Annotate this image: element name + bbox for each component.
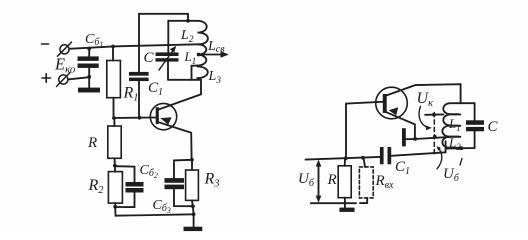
node junction top of Cб1 — [87, 47, 91, 51]
svg-text:R3: R3 — [204, 171, 220, 190]
wire supply rail — [69, 44, 197, 49]
wire base line — [114, 117, 157, 120]
wire plus lead — [68, 77, 89, 79]
label Uб' prime — [460, 159, 462, 166]
node junction R/R2/Cб2 — [113, 164, 117, 168]
node junction dashed/Uк line — [432, 113, 436, 117]
wire Uк tap line — [425, 113, 443, 115]
arrow Uб' (curved) — [437, 146, 442, 169]
svg-text:Uб: Uб — [298, 171, 315, 189]
svg-text:Uб: Uб — [443, 166, 460, 184]
resistor R2 — [108, 166, 122, 207]
wire tank top line — [461, 102, 475, 104]
capacitor C1 — [129, 72, 149, 118]
ground (main, left circuit) — [184, 214, 203, 231]
inductor L2 — [198, 21, 208, 45]
ground (rotated, emitter) — [402, 128, 415, 146]
svg-text:Cб1: Cб1 — [85, 32, 103, 49]
wire outer loop top — [139, 14, 188, 72]
svg-text:Lсв: Lсв — [207, 39, 225, 55]
arrow Uк (curved) — [419, 107, 432, 131]
capacitor Cб2 — [115, 166, 144, 207]
inductor L1 — [198, 44, 207, 65]
capacitor Cб1 — [78, 49, 99, 77]
transistor Q2 emitter (PNP arrow) — [386, 107, 415, 139]
node junction coil bottom — [460, 146, 464, 150]
arrow of variable capacitor C — [159, 46, 176, 70]
plus sign — [42, 74, 51, 83]
wire dashed divider — [433, 113, 435, 155]
arrow Uб (double headed) — [316, 160, 322, 203]
transistor Q1 circle — [150, 103, 176, 129]
node junction R top — [344, 157, 348, 161]
svg-text:Cб2: Cб2 — [140, 163, 158, 180]
wire tank bottom line — [168, 79, 201, 81]
resistor Rвх (dashed) — [359, 158, 373, 203]
wire inner top line — [168, 20, 197, 22]
transistor Q1 collector — [158, 80, 201, 110]
capacitor C1 right — [380, 147, 446, 164]
wire tap to coil (L1'/L2' junction) — [415, 137, 450, 139]
wire bottom rail right — [311, 202, 356, 204]
resistor R — [108, 118, 121, 166]
terminal top (circle with slash) — [58, 42, 72, 56]
svg-text:L3: L3 — [208, 69, 222, 86]
wire base line right — [346, 102, 383, 159]
svg-text:R2: R2 — [88, 177, 105, 196]
node junction dashed line/tap — [433, 135, 437, 139]
node junction at inner top line — [186, 19, 190, 23]
wire emitter down — [190, 133, 192, 160]
ground (below Cб1) — [78, 77, 100, 93]
svg-text:L2: L2 — [180, 28, 194, 45]
svg-text:L1: L1 — [184, 49, 197, 66]
node junction R1 top — [111, 45, 115, 49]
capacitor Cб3 — [165, 160, 193, 206]
minus sign — [42, 43, 49, 45]
svg-text:R: R — [327, 172, 337, 188]
svg-text:Eко: Eко — [54, 55, 76, 76]
wire tank bottom line — [446, 147, 475, 150]
svg-text:Rвх: Rвх — [375, 173, 395, 191]
node junction Rвх top — [361, 156, 365, 160]
resistor R1 — [107, 47, 121, 119]
svg-text:C: C — [144, 50, 155, 66]
node junction plus/Cб1 — [87, 75, 91, 79]
node junction emitter/R3/Cб3 — [190, 158, 194, 162]
transistor Q2 circle — [376, 87, 408, 119]
node junction emitter ground line — [413, 137, 417, 141]
capacitor C (variable) — [156, 21, 179, 80]
node junction Lсв takeoff — [197, 53, 201, 57]
svg-text:Cб3: Cб3 — [153, 198, 171, 215]
inductor L3 — [198, 67, 208, 80]
transistor Q2 collector — [386, 84, 461, 103]
resistor R right — [338, 158, 351, 207]
resistor R3 — [186, 160, 199, 206]
node junction C1 rail on base line — [138, 116, 142, 120]
svg-text:C1: C1 — [148, 80, 163, 98]
wire tap L1/L3 — [192, 66, 198, 80]
svg-text:C: C — [488, 119, 499, 135]
node junction bus/ground — [192, 212, 196, 216]
inductor L2' — [442, 137, 460, 148]
wire input rail / C1 line — [306, 157, 380, 160]
ground (below R right) — [339, 208, 354, 212]
svg-text:R: R — [87, 135, 97, 151]
svg-text:Uк: Uк — [417, 90, 434, 109]
wire R3 to bus — [192, 206, 195, 214]
svg-text:R1: R1 — [123, 85, 139, 104]
node junction base rail — [344, 157, 348, 161]
wire C1 line hook up — [445, 141, 447, 152]
inductor L1' — [442, 103, 460, 136]
transistor Q1 emitter (PNP arrow to base) — [159, 117, 192, 133]
svg-text:C1: C1 — [395, 159, 410, 177]
svg-text:L1: L1 — [448, 116, 461, 133]
node junction base/R1/R — [112, 116, 116, 120]
wire bottom bus — [115, 207, 193, 216]
terminal bottom (circle with slash) — [57, 73, 71, 87]
node junction R3 bottom / Cб3 — [191, 204, 195, 208]
transistor Q1 base bar — [156, 107, 159, 124]
arrow Lсв output — [199, 51, 229, 58]
node junction R2 bottom — [113, 205, 117, 209]
capacitor C right — [466, 103, 484, 148]
transistor Q2 base bar — [383, 94, 387, 113]
